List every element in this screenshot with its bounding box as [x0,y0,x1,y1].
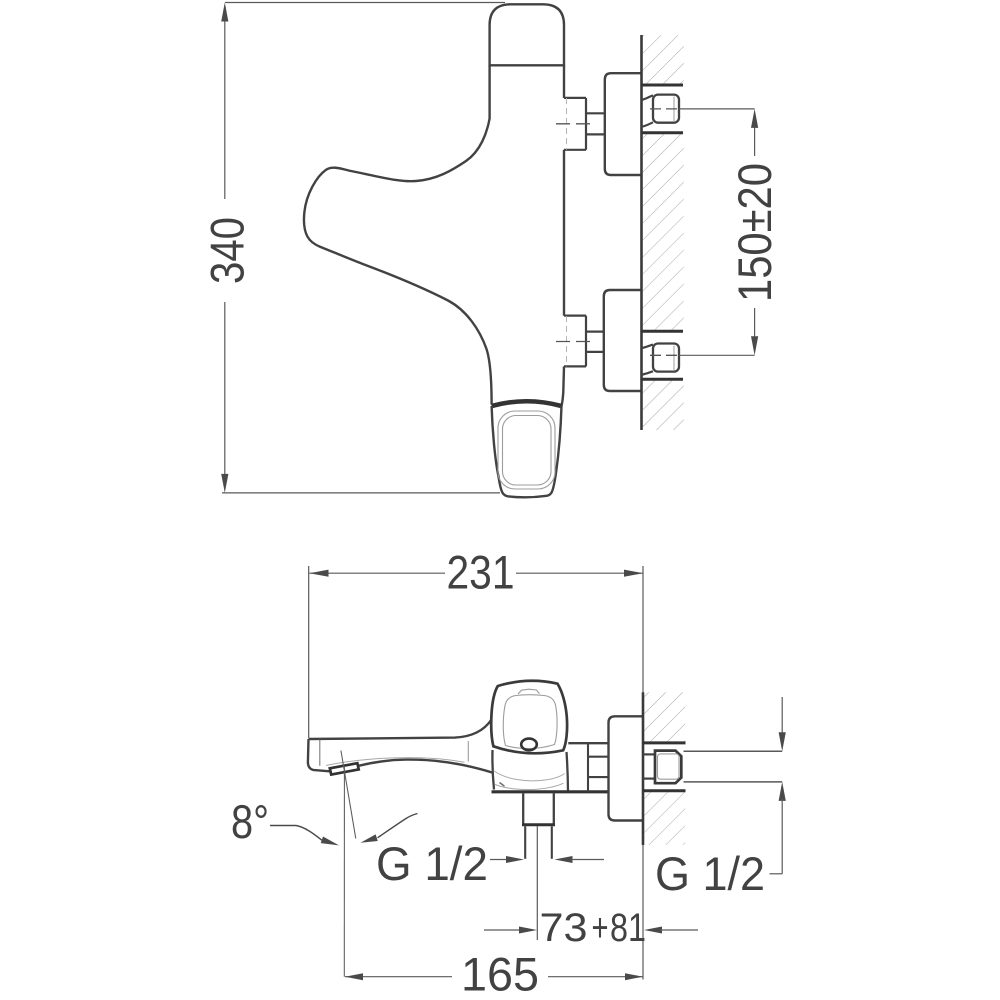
body connector vertical (bottom view) [587,743,589,792]
dimension 165 line right segment [548,976,643,978]
svg-text:231: 231 [447,546,515,599]
shower pipe bottom line (bottom view) [684,781,783,783]
spout left tip edge (bottom view) [308,739,330,771]
shower outlet left edge (bottom view) [522,793,524,823]
wall hatching upper block (side view) [643,35,684,85]
handle skirt inner curve [494,771,565,781]
lower escutcheon plate (side view) [604,290,643,391]
wall extension line lower (bottom view) [642,845,644,980]
recess top line (bottom view) [643,741,686,744]
upper wall screw neck bottom [642,122,654,126]
upper wall screw neck top [642,95,654,100]
plumb vertical reference line [343,766,345,977]
handle skirt lower contour [495,783,564,789]
spout top edge (bottom view) [309,720,492,740]
body bottom line (bottom view) [492,790,609,793]
temperature knob outline (side view) [492,406,562,497]
svg-text:150±20: 150±20 [728,163,781,302]
body connector band 2 [588,776,609,778]
knob inner contour B [503,416,552,486]
lower inlet hex bottom line [564,365,586,367]
faucet body right edge upper segment (side view) [563,65,565,98]
knob seam band (side view) [492,401,562,406]
wall hatching lower block (bottom view) [644,791,685,845]
dimension 165 arrow left [345,973,363,980]
upper inlet hidden edge dashes [566,98,568,150]
dimension 150+-20 line lower segment [754,308,756,339]
wall extension line upper (bottom view) [642,566,644,692]
shower outlet pipe left edge [524,826,526,859]
faucet body and handle outline (side view) [304,65,492,404]
upper recess bottom line [642,131,684,134]
knob inner contour A [498,411,555,489]
lower inlet centerline [556,341,596,343]
lower inlet hex right edge [585,316,587,367]
svg-text:+: + [592,906,609,950]
upper inlet neck bottom line [586,133,605,135]
spout body junction seam [467,741,469,762]
mixer handle outer outline (bottom view) [491,681,567,754]
8 degree tilted axis line [341,750,356,838]
lower recess bottom line [642,378,684,381]
shower pipe top line (bottom view) [684,750,783,752]
dimension 150+-20 lower reference line [679,354,755,356]
wall line (side view) [640,35,643,430]
dimension 340 extension line top [225,2,505,4]
shower outlet right edge (bottom view) [553,793,555,823]
upper wall screw head [653,95,679,123]
lower inlet neck top line [586,331,604,333]
spout underside (bottom view) [359,760,493,773]
dimension 73 arrow tail [484,929,521,931]
wall fitting neck bottom (bottom view) [643,777,655,779]
wall hatching middle block (side view) [643,133,684,332]
dimension 340 line lower segment [224,302,226,476]
dimension 73 arrow [519,927,537,934]
recess bottom line (bottom view) [643,789,686,792]
outlet dimension left arrow tail [490,859,508,861]
pipe dimension lower line [781,799,783,874]
svg-text:340: 340 [201,217,254,284]
dimension 165 line left segment [345,976,452,978]
outlet dimension right arrow [555,856,573,863]
lower wall screw head [653,344,679,372]
svg-text:8°: 8° [231,795,269,848]
pipe dimension arrow down [779,732,786,751]
dimension 231 arrow left [310,570,329,577]
upper inlet hex top line [564,97,586,99]
dimension 150+-20 arrow down [751,336,758,355]
wall hatching upper block (bottom view) [644,692,685,743]
svg-text:81: 81 [610,906,646,950]
lower inlet hidden edge dashes [566,316,568,366]
lower inlet neck bottom line [586,351,604,353]
shower outlet pipe right edge [551,826,553,859]
handle oval button [521,739,537,751]
wall hatching lower block (side view) [643,379,684,430]
wall line (bottom view) [642,692,645,845]
svg-text:73: 73 [540,906,588,950]
dimension 150+-20 arrow up [751,109,758,128]
dimension 81 arrow [644,927,662,934]
mixer handle inner contour (bottom view) [503,695,557,749]
dimension 340 arrow down [221,474,228,493]
dimension 150+-20 upper reference line [679,108,755,110]
pipe dimension upper line [781,697,783,734]
aerator on spout (bottom view) [330,763,359,774]
spout tip face line [319,740,321,766]
spout inner contour [326,758,465,766]
upper wall screw chamfer line [673,97,675,122]
dimension 340 arrow up [221,3,228,22]
shower outlet bottom line [522,823,555,826]
upper wall screw centerline [650,108,678,110]
dimension 340 extension line bottom [222,492,500,494]
lower wall screw chamfer line [673,346,675,371]
8 degree arc arrow right [361,834,378,842]
handle skirt tick [500,783,505,787]
upper inlet hex bottom line [564,149,586,151]
body top line (bottom view) [568,742,608,744]
pipe dimension arrow up [779,782,786,801]
lower recess top line [642,330,684,333]
mixer handle top notch [518,689,540,694]
8 degree arc right [378,814,418,838]
upper inlet hex right edge [585,98,587,150]
dimension 340 line upper segment [224,19,226,199]
outlet dimension left arrow [506,856,524,863]
handle skirt right edge (bottom view) [567,752,569,792]
faucet body right edge middle segment (side view) [563,150,565,316]
pipe dimension elbow to label [770,873,783,875]
wall fitting head inner contour [658,754,680,779]
faucet body right edge lower segment (side view) [562,366,565,406]
dimension 231 arrow right [624,570,643,577]
svg-text:G 1/2: G 1/2 [376,837,488,890]
upper inlet centerline [556,123,596,125]
wall fitting head (bottom view) [655,751,681,784]
upper inlet neck top line [586,112,605,114]
upper escutcheon plate (side view) [605,73,643,175]
8 degree leader and arc left [270,826,322,841]
lower inlet hex top line [564,315,586,317]
lower wall screw neck bottom [642,371,654,375]
8 degree arc arrow left [321,837,339,846]
svg-text:G 1/2: G 1/2 [655,847,765,900]
dimension 81 arrow tail [660,929,698,931]
handle skirt left edge (bottom view) [492,750,494,790]
escutcheon plate (bottom view) [609,716,644,820]
dimension 231 left extension line [308,566,310,738]
dimension 231 line right segment [516,572,643,574]
dimension 150+-20 line upper segment [754,125,756,156]
faucet top cap (side view) [490,4,564,65]
upper recess top line [642,84,684,87]
lower wall screw neck top [642,345,654,349]
body connector band 1 [588,756,609,758]
svg-text:165: 165 [461,948,539,1000]
dimension 165 arrow right [625,973,643,980]
wall fitting neck top (bottom view) [643,753,655,755]
dimension 73 extension line [536,826,538,940]
dimension 231 line left segment [310,572,446,574]
lower wall screw centerline [650,354,678,356]
outlet dimension right arrow tail [571,859,605,861]
